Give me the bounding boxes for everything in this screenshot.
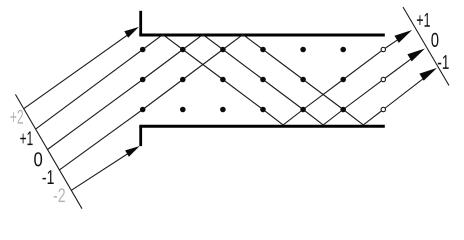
arrowhead order -2 [125, 146, 140, 157]
scatterer dot row1 col4 [260, 47, 266, 53]
diffracted ray order +1 [383, 35, 405, 50]
scatterer dot row3 col5 [300, 107, 306, 113]
scatterer dot row1 col6 [340, 47, 346, 53]
exit point open circle row1 [381, 47, 385, 51]
incident ray order +2 [24, 32, 133, 109]
scatterer dot row3 col1 [140, 107, 146, 113]
label diffracted order -1 [438, 55, 449, 69]
guided zig-zag path order +1 [143, 35, 384, 125]
scatterer dot row3 col2 [180, 107, 186, 113]
scatterer dot row2 col1 [140, 77, 146, 83]
guided zig-zag path order -1 [143, 35, 384, 125]
top plate left edge tick [139, 11, 142, 35]
scatterer dot row1 col2 [180, 47, 186, 53]
label incident order -2 [54, 188, 65, 202]
diffracted ray order -1 [383, 73, 430, 110]
scatterer dot row1 col3 [220, 47, 226, 53]
incident ray order +1 [36, 50, 143, 130]
label incident order -1 [43, 170, 54, 184]
scatterer dot row3 col4 [260, 107, 266, 113]
incident ray order -2 [71, 150, 133, 190]
scatterer dot row3 col6 [340, 107, 346, 113]
scatterer dot row3 col3 [220, 107, 226, 113]
label incident order +1 [20, 131, 32, 145]
diffracted wavefront line [403, 7, 449, 86]
exit point open circle row2 [381, 77, 385, 81]
arrowhead order +1 out [395, 30, 413, 43]
bottom plate [139, 125, 384, 128]
incident ray order 0 [48, 80, 143, 150]
label incident order +2 [11, 110, 24, 124]
scatterer dot row2 col5 [300, 77, 306, 83]
scatterer dot row2 col3 [220, 77, 226, 83]
scatterer dot row2 col6 [340, 77, 346, 83]
arrowhead order 0 out [407, 49, 425, 62]
label incident order 0 [34, 152, 42, 166]
incident wavefront line [15, 94, 82, 208]
scatterer dot row2 col2 [180, 77, 186, 83]
diffracted ray order 0 [383, 53, 418, 79]
arrowhead order +2 [124, 27, 139, 38]
bottom plate left edge tick [139, 126, 142, 146]
label diffracted order +1 [417, 13, 430, 27]
scatterer dot row1 col5 [300, 47, 306, 53]
arrowhead order -1 out [419, 68, 437, 81]
scatterer dot row1 col1 [140, 47, 146, 53]
exit point open circle row3 [381, 107, 385, 111]
top plate [139, 34, 384, 37]
incident ray order -1 [59, 110, 142, 170]
scatterer dot row2 col4 [260, 77, 266, 83]
label diffracted order 0 [431, 33, 438, 47]
guided zig-zag path order 0 [143, 35, 384, 125]
